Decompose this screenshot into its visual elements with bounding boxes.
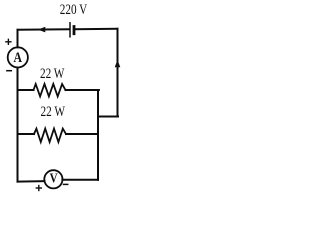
wire left vertical (ammeter to bottom) [17, 68, 19, 182]
resistor R2 (22 W) zigzag [34, 129, 66, 142]
wire top-right segment [75, 28, 118, 30]
battery V1 (220 V cell): long plate [69, 23, 71, 37]
svg-text:V: V [50, 172, 58, 187]
svg-text:220 V: 220 V [60, 2, 88, 18]
svg-text:22 W: 22 W [41, 104, 66, 120]
wire left top (to ammeter) [17, 30, 19, 48]
wire bottom-right segment [62, 179, 98, 181]
svg-text:22 W: 22 W [40, 66, 65, 82]
wire bottom-left segment [18, 180, 45, 182]
battery V1 short thick plate [73, 27, 76, 34]
wire branch1 right lead [66, 89, 99, 91]
current arrow (left) on top wire [38, 27, 46, 33]
wire branch1 left lead [18, 89, 34, 91]
wire top-left segment [18, 28, 70, 31]
ammeter minus polarity mark [7, 70, 11, 72]
voltmeter V1 circle [44, 170, 62, 188]
resistor R1 (22 W) zigzag [34, 84, 66, 96]
voltmeter plus polarity mark [36, 186, 41, 191]
wire right vertical [117, 29, 119, 117]
ammeter plus polarity mark [6, 39, 11, 44]
voltmeter minus polarity mark [64, 183, 68, 185]
ammeter A1 circle [8, 47, 28, 67]
current arrow (up) on right wire [115, 60, 121, 68]
wire branch2 right lead [66, 133, 98, 135]
wire jog connector at node B [98, 116, 118, 118]
wire branch2 left lead [18, 133, 35, 135]
wire middle vertical (node B down to bottom) [97, 90, 99, 180]
svg-text:A: A [14, 50, 23, 66]
